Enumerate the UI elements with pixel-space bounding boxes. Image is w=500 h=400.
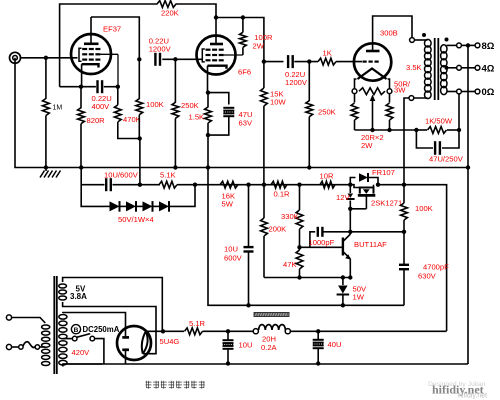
resistor R15 5.1K xyxy=(159,171,195,189)
resistor R20 330K xyxy=(281,185,303,248)
node bias rail junction xyxy=(138,183,142,187)
transistor Q2 BUT11AF xyxy=(343,232,387,278)
svg-text:1.5K: 1.5K xyxy=(189,113,205,122)
wire 300B plate to OPT xyxy=(373,16,412,43)
label EF37 xyxy=(103,25,121,34)
wire filament right leg xyxy=(388,79,390,89)
diode D4 bias xyxy=(159,201,169,212)
svg-text:1200V: 1200V xyxy=(149,45,172,54)
terminal OPT primary bottom xyxy=(409,96,414,101)
wire 6F6 cathode xyxy=(207,75,209,93)
node ground 250K xyxy=(173,165,177,169)
wire BUT base line xyxy=(300,246,343,248)
ground symbol xyxy=(40,168,61,178)
node ground 8ohm xyxy=(466,165,470,169)
switch S2 HT xyxy=(72,334,94,341)
node 20R right junction xyxy=(387,128,391,132)
wire 1M top xyxy=(45,58,47,99)
node OPT B+ junction xyxy=(402,183,406,187)
svg-text:330K: 330K xyxy=(281,212,299,221)
diode D3 bias xyxy=(143,201,153,212)
svg-text:10R: 10R xyxy=(320,172,334,181)
node ground 250K2 xyxy=(307,165,311,169)
node FET gate junction xyxy=(348,183,352,187)
svg-text:10U: 10U xyxy=(224,245,238,254)
node grid EF37 junction xyxy=(44,56,48,60)
caption mono design note xyxy=(146,381,205,389)
node feedback left junction xyxy=(414,128,418,132)
capacitor C8 4700pF/630V xyxy=(399,232,449,305)
svg-text:12V: 12V xyxy=(336,193,350,202)
wire emitter rail xyxy=(264,277,350,279)
svg-text:6F6: 6F6 xyxy=(238,68,251,77)
svg-text:2W: 2W xyxy=(361,141,373,150)
node 330K top junction xyxy=(297,183,301,187)
label 3.5K xyxy=(406,63,422,72)
svg-text:300B: 300B xyxy=(380,29,398,38)
node zener50 bottom junction xyxy=(341,303,345,307)
node cathode top junction xyxy=(206,90,210,94)
wiper arrow humdinger xyxy=(370,95,376,131)
terminal OPT primary top xyxy=(410,38,415,43)
svg-text:1200V: 1200V xyxy=(285,78,308,87)
wire 1M bottom xyxy=(45,116,47,168)
label 300B xyxy=(380,29,398,38)
wire 5U4G anode1 feed xyxy=(125,331,127,337)
node secondary mid tap xyxy=(445,66,449,70)
wire OPT primary bottom drop xyxy=(404,98,409,185)
wire 0ohm tap xyxy=(447,91,476,93)
winding OPT secondary xyxy=(441,45,447,95)
svg-text:4Ω: 4Ω xyxy=(482,64,495,75)
svg-text:5.1R: 5.1R xyxy=(189,319,206,328)
zener D7 50V/1W xyxy=(337,278,367,306)
wire OPT primary top lead xyxy=(414,39,427,41)
wire choke right lead xyxy=(290,330,446,332)
node wiper junction xyxy=(370,128,374,132)
node ground 1M xyxy=(44,165,48,169)
resistor R6 250K xyxy=(172,59,199,167)
svg-text:EF37: EF37 xyxy=(103,25,121,34)
resistor R3 820R xyxy=(78,87,106,168)
svg-text:470K: 470K xyxy=(123,115,141,124)
node 15K bottom junction xyxy=(262,183,266,187)
svg-text:1K: 1K xyxy=(323,49,332,58)
label 420V xyxy=(72,348,91,357)
resistor R13 20R right xyxy=(386,94,393,130)
node BUT collector junction xyxy=(348,230,352,234)
svg-text:hifidiy.net: hifidiy.net xyxy=(458,393,487,400)
svg-text:3.5K: 3.5K xyxy=(406,63,422,72)
svg-text:8Ω: 8Ω xyxy=(482,41,495,52)
node EF37 plate/coupling junction xyxy=(137,57,141,61)
wire 5U4G filament out xyxy=(146,330,163,332)
svg-text:5W: 5W xyxy=(222,200,234,209)
wire mid bottom rail xyxy=(208,168,404,306)
svg-text:3W: 3W xyxy=(394,86,406,95)
svg-text:1K/50W: 1K/50W xyxy=(425,117,453,126)
svg-text:63V: 63V xyxy=(239,119,253,128)
svg-text:0Ω: 0Ω xyxy=(482,87,495,98)
terminal filament right xyxy=(387,89,392,94)
resistor R23 5.1R xyxy=(163,319,228,335)
potentiometer 50R/3W humdinger xyxy=(359,80,411,95)
resistor R16 16K/5W xyxy=(220,181,238,208)
svg-text:420V: 420V xyxy=(72,348,91,357)
pentode U2 6F6 xyxy=(197,36,243,75)
resistor R5 100K xyxy=(136,59,164,138)
resistor R22 100K-2 xyxy=(401,185,433,232)
svg-text:47K: 47K xyxy=(283,260,297,269)
label 4ohm xyxy=(482,64,495,75)
svg-text:0.2A: 0.2A xyxy=(261,343,278,352)
svg-text:1M: 1M xyxy=(53,105,63,112)
svg-text:FR107: FR107 xyxy=(372,168,395,177)
svg-text:100K: 100K xyxy=(146,100,164,109)
wire 220K left drop xyxy=(60,4,158,87)
svg-text:DC250mA: DC250mA xyxy=(83,325,120,334)
wire humdinger bottom rail xyxy=(355,129,417,131)
resistor R7 100R/2W xyxy=(240,18,273,56)
triode U3 300B xyxy=(354,43,391,80)
svg-text:10U/600V: 10U/600V xyxy=(104,171,139,180)
node 10U2 bottom junction xyxy=(246,303,250,307)
capacitor C10 10U psu xyxy=(223,331,253,363)
capacitor C6 10U/600V xyxy=(104,171,139,192)
winding PT primary xyxy=(42,325,50,366)
capacitor C9 1000pF xyxy=(309,227,351,248)
winding PT 5V xyxy=(59,284,67,300)
watermark designed by xyxy=(428,381,486,388)
core PT xyxy=(54,276,57,374)
node FET source junction xyxy=(348,207,352,211)
phase dot secondary xyxy=(445,38,449,42)
transistor Q1 2SK1271 xyxy=(350,185,402,209)
meter B DC250mA xyxy=(71,325,119,334)
node 10U3 top junction xyxy=(226,329,230,333)
wire collector to 100K bottom xyxy=(350,231,404,233)
resistor R9 250K-2 xyxy=(306,62,336,168)
wire HT switch to ground rail xyxy=(95,339,104,364)
terminal 8ohm inner xyxy=(457,43,462,48)
wire 0ohm tap drop xyxy=(458,94,460,130)
wire 470K junction to bias rail xyxy=(139,139,141,185)
resistor R2 220K xyxy=(157,1,179,18)
svg-text:600V: 600V xyxy=(224,254,243,263)
svg-text:250K: 250K xyxy=(318,108,336,117)
resistor R21 47K xyxy=(283,247,303,277)
svg-text:1W: 1W xyxy=(353,293,365,302)
input jack J1 xyxy=(10,52,21,63)
node 8ohm junction xyxy=(466,43,470,47)
node ground 820R xyxy=(79,165,83,169)
core OPT xyxy=(435,38,439,100)
terminal 0ohm inner xyxy=(457,89,462,94)
mains terminal lower xyxy=(6,344,11,349)
wire EF37 cathode line xyxy=(60,74,118,87)
svg-text:250K: 250K xyxy=(181,101,199,110)
wire 5V bottom lead xyxy=(63,302,156,354)
node ground cathode2 xyxy=(206,165,210,169)
node 300B coupling junction xyxy=(262,59,266,63)
resistor R17 0.1R xyxy=(271,181,290,198)
svg-text:47U/250V: 47U/250V xyxy=(429,155,464,164)
wire 47U bottom xyxy=(208,117,229,136)
wire plate rail to 100R and 300B coupling xyxy=(216,18,264,62)
winding OPT primary xyxy=(425,39,432,98)
svg-text:40U: 40U xyxy=(328,340,342,349)
wire cathode to 47U cap top xyxy=(208,93,229,105)
wire 8ohm to ground rail xyxy=(467,45,469,363)
node 330K/47K junction xyxy=(297,245,301,249)
svg-text:4700pF: 4700pF xyxy=(423,263,449,272)
label 6F6 xyxy=(238,68,251,77)
watermark hifidiy big xyxy=(432,383,484,397)
terminal 8ohm outer xyxy=(475,43,480,48)
phase dot primary xyxy=(422,33,426,37)
diode D5 FR107 xyxy=(350,168,394,185)
wire EF37 plate to top rail xyxy=(90,17,92,34)
svg-text:3.8A: 3.8A xyxy=(70,292,87,301)
svg-text:2SK1271: 2SK1271 xyxy=(371,199,402,208)
wire source to BUT collector xyxy=(349,209,351,232)
capacitor C1 0.22U/400V xyxy=(92,80,112,111)
capacitor C4 0.22U/1200V coupling2 xyxy=(264,55,318,87)
diode D1 bias xyxy=(110,201,120,212)
wire cathode to ground rail xyxy=(207,135,209,167)
choke L1 20H/0.2A xyxy=(253,313,290,353)
node 5.1K right junction xyxy=(193,183,197,187)
rectifier U4 5U4G xyxy=(117,326,151,360)
node cathode 470K junction xyxy=(116,85,120,89)
svg-text:100K: 100K xyxy=(415,204,433,213)
svg-text:220K: 220K xyxy=(161,8,179,17)
wire bottom ground rail xyxy=(63,363,468,364)
wire drain line xyxy=(378,185,447,331)
svg-text:5.1K: 5.1K xyxy=(160,171,176,180)
svg-text:50V/1W×4: 50V/1W×4 xyxy=(118,215,154,224)
terminal 4ohm inner xyxy=(457,65,462,70)
wire 220K right to 6F6 plate rail xyxy=(176,4,217,18)
diode D2 bias xyxy=(126,201,136,212)
wire cap-res rail xyxy=(81,184,160,186)
wire 6F6 plate to rail xyxy=(215,18,217,36)
svg-text:5U4G: 5U4G xyxy=(160,337,180,346)
svg-text:1000pF: 1000pF xyxy=(309,238,335,247)
node 40U top junction xyxy=(316,329,320,333)
wire HV top lead xyxy=(63,313,126,331)
svg-text:200K: 200K xyxy=(269,225,287,234)
wire OPT primary bottom lead xyxy=(411,97,427,99)
node rectifier output junction xyxy=(161,329,165,333)
mains terminal upper xyxy=(6,315,11,320)
capacitor C3 47U/63V xyxy=(223,108,253,128)
wire plate rail to coupling node xyxy=(91,17,139,59)
resistor R14 1K/50W xyxy=(416,117,459,134)
winding PT HV 420V xyxy=(59,315,67,366)
node 470K/100K junction xyxy=(138,136,142,140)
node zener50 top junction xyxy=(341,275,345,279)
node cathode bottom junction xyxy=(206,133,210,137)
svg-text:B: B xyxy=(74,327,79,334)
triode-pentode U1 EF37 xyxy=(71,34,118,87)
node cathode 820R junction xyxy=(79,85,83,89)
svg-text:10W: 10W xyxy=(270,98,286,107)
svg-text:820R: 820R xyxy=(87,116,106,125)
node 47K bottom junction xyxy=(297,275,301,279)
resistor R8 1.5K xyxy=(189,93,212,136)
wire 4ohm tap xyxy=(447,67,476,69)
zener D6 12V xyxy=(336,185,355,209)
resistor R19 200K xyxy=(261,185,287,278)
watermark hifidiy small xyxy=(458,393,487,400)
wire 8ohm tap xyxy=(447,44,476,46)
node 40U bottom junction xyxy=(316,361,320,365)
svg-text:10U: 10U xyxy=(239,341,253,350)
terminal 4ohm outer xyxy=(475,65,480,70)
capacitor C11 40U xyxy=(313,331,342,363)
wire main ground rail xyxy=(15,58,468,168)
label 0ohm xyxy=(482,87,495,98)
label 5U4G xyxy=(160,337,180,346)
wire 5V top lead xyxy=(63,278,163,332)
wire HV centre tap xyxy=(63,338,72,340)
wire input to EF37 grid xyxy=(20,57,78,59)
node 250K grid junction xyxy=(173,57,177,61)
svg-text:0.1R: 0.1R xyxy=(274,190,291,199)
node FET drain junction xyxy=(376,183,380,187)
label 5V 3.8A xyxy=(70,285,87,302)
svg-text:400V: 400V xyxy=(92,102,111,111)
wire coupling cap to 6F6 grid xyxy=(162,58,202,60)
node 10U2 top junction xyxy=(246,183,250,187)
terminal 0ohm outer xyxy=(475,89,480,94)
wire filament left leg xyxy=(355,79,357,89)
wire bias rail xyxy=(81,168,105,207)
node 100R top junction xyxy=(241,15,245,19)
resistor R12 20R left xyxy=(351,94,358,130)
label 8ohm xyxy=(482,41,495,52)
resistor R1 1M xyxy=(43,99,63,116)
wire 5U4G anode2 drop xyxy=(125,351,127,364)
wire mains upper xyxy=(12,318,46,324)
resistor R18 10R xyxy=(320,172,336,189)
svg-text:2W: 2W xyxy=(253,41,265,50)
resistor R11 15K/10W xyxy=(261,62,287,185)
resistor R10 1K grid stopper xyxy=(318,49,362,66)
capacitor C7 10U/600V-2 xyxy=(224,185,254,306)
wire choke left lead xyxy=(228,330,253,332)
resistor R4 470K xyxy=(114,87,140,139)
node emitter junction xyxy=(348,275,352,279)
node feedback right junction xyxy=(457,128,461,132)
node 250K2 top junction xyxy=(307,59,311,63)
node 6F6 plate junction xyxy=(214,15,218,19)
wire supply rail to FET xyxy=(195,184,350,186)
svg-text:630V: 630V xyxy=(418,272,437,281)
wire HV bottom lead xyxy=(63,364,103,367)
terminal filament left xyxy=(352,89,357,94)
svg-text:BUT11AF: BUT11AF xyxy=(354,240,387,249)
node 10U3 bottom junction xyxy=(226,361,230,365)
label 20R x2 2W xyxy=(361,133,384,150)
capacitor C2 0.22U/1200V coupling xyxy=(149,37,172,66)
capacitor C5 47U/250V xyxy=(416,130,463,164)
wire diode chain xyxy=(105,185,195,207)
label 50V/1W x4 xyxy=(118,215,154,224)
wire switch to primary xyxy=(40,346,46,348)
node 100K2 bottom junction xyxy=(402,230,406,234)
wire mains lower xyxy=(12,346,19,348)
switch S1 mains xyxy=(19,342,40,349)
